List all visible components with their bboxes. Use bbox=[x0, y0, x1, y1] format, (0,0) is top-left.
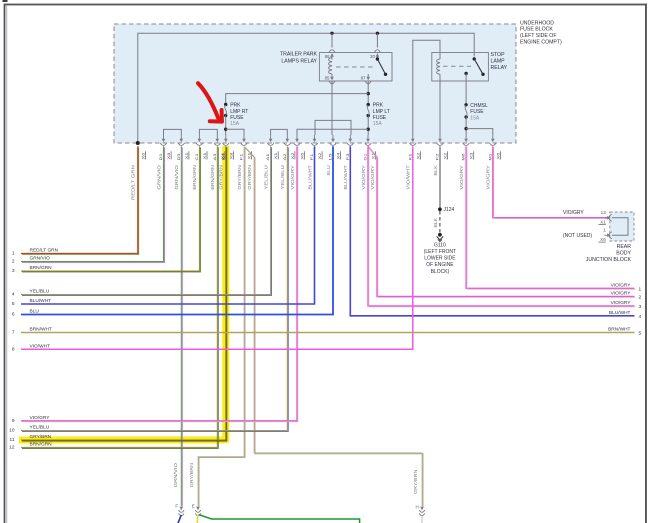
svg-text:15A: 15A bbox=[230, 121, 240, 127]
wire 87-to-RT-fuse bbox=[226, 94, 369, 105]
svg-text:X8: X8 bbox=[167, 153, 171, 160]
svg-text:GRY/BRN: GRY/BRN bbox=[247, 165, 252, 189]
svg-text:UNDERHOOD: UNDERHOOD bbox=[520, 20, 554, 26]
wire BRN/GRN from A3 bbox=[21, 146, 218, 448]
node bus-86 bbox=[330, 32, 333, 35]
wire BLK to ground bbox=[433, 211, 440, 233]
svg-text:BRN/GRN: BRN/GRN bbox=[30, 265, 53, 271]
svg-text:G1: G1 bbox=[364, 154, 368, 161]
svg-text:VIO/GRY: VIO/GRY bbox=[30, 415, 51, 421]
svg-text:ENGINE COMPT): ENGINE COMPT) bbox=[520, 39, 562, 45]
rear body junction block box bbox=[610, 212, 634, 241]
svg-text:M6: M6 bbox=[462, 154, 466, 161]
pin 86 trailer relay bbox=[325, 50, 335, 60]
svg-text:YEL/BLU: YEL/BLU bbox=[263, 165, 268, 189]
wire relay87 junction bbox=[367, 81, 370, 105]
fuse PRK LMP LT label bbox=[373, 103, 390, 128]
svg-text:5: 5 bbox=[639, 331, 642, 337]
coil trailer relay bbox=[329, 58, 332, 75]
svg-text:J124: J124 bbox=[444, 207, 455, 213]
svg-text:YEL/BLU: YEL/BLU bbox=[30, 425, 50, 431]
svg-text:YEL/BLU: YEL/BLU bbox=[280, 165, 285, 189]
page top border bbox=[3, 0, 648, 5]
connector pin pin K1 at x=412.8 bbox=[408, 135, 420, 161]
svg-text:X6: X6 bbox=[600, 237, 606, 242]
wire VIO/GRY from G1 bbox=[361, 146, 636, 307]
svg-text:(LEFT FRONT: (LEFT FRONT bbox=[424, 249, 456, 255]
left edge circuit labels bbox=[9, 248, 58, 451]
svg-text:FUSE: FUSE bbox=[470, 109, 484, 115]
underhood fuse block (dashed box) bbox=[114, 24, 516, 143]
wire RT fuse output bbox=[224, 116, 227, 136]
ground G110 label bbox=[424, 242, 457, 274]
fuse PRK LMP LT 15A bbox=[367, 103, 370, 117]
svg-text:X2: X2 bbox=[444, 153, 448, 160]
wire VIO/GRY left bbox=[21, 146, 298, 421]
svg-text:15A: 15A bbox=[470, 115, 480, 121]
svg-text:9: 9 bbox=[12, 418, 15, 424]
wire CHMSL branch to M1 bbox=[466, 129, 493, 135]
svg-text:JUNCTION BLOCK: JUNCTION BLOCK bbox=[586, 257, 632, 263]
bracket D1-D3 bbox=[164, 129, 182, 135]
svg-text:BRN/GRN: BRN/GRN bbox=[30, 442, 53, 448]
svg-text:X1: X1 bbox=[274, 153, 278, 160]
svg-text:GRY/BRN: GRY/BRN bbox=[237, 165, 242, 189]
connector pin pin F1 at x=244.0 bbox=[240, 135, 252, 161]
connector pin pin D3 at x=181.3 bbox=[177, 135, 189, 161]
linkage trailer relay bbox=[336, 66, 374, 68]
svg-text:X6: X6 bbox=[141, 153, 145, 160]
svg-text:BRN/WHT: BRN/WHT bbox=[30, 327, 52, 333]
connector pin pin C1 at x=199.4 bbox=[195, 135, 207, 161]
svg-text:X2: X2 bbox=[416, 153, 420, 160]
svg-text:VIO/GRY: VIO/GRY bbox=[370, 165, 375, 190]
connector pin pin F2 at x=440.0 bbox=[436, 135, 448, 161]
connector pin pin X6 at x=137.8 bbox=[136, 141, 146, 160]
svg-text:85: 85 bbox=[325, 75, 330, 80]
svg-text:2: 2 bbox=[639, 295, 642, 301]
svg-text:FUSE: FUSE bbox=[230, 115, 244, 121]
wire stop coil feed bbox=[413, 40, 440, 135]
fuse PRK LMP RT label bbox=[230, 103, 248, 128]
wire BLU/WHT from F3 bbox=[343, 146, 634, 315]
svg-text:BLK: BLK bbox=[433, 218, 438, 228]
svg-text:X8: X8 bbox=[229, 153, 233, 160]
svg-text:LOWER SIDE: LOWER SIDE bbox=[424, 256, 456, 262]
svg-text:10: 10 bbox=[9, 428, 15, 434]
svg-text:TRAILER PARK: TRAILER PARK bbox=[280, 52, 318, 58]
svg-text:1: 1 bbox=[603, 228, 606, 233]
node stop relay output bbox=[464, 72, 467, 75]
svg-text:FUSE BLOCK: FUSE BLOCK bbox=[520, 27, 553, 33]
svg-text:A3: A3 bbox=[213, 154, 217, 161]
svg-text:1: 1 bbox=[12, 251, 15, 257]
bracket A1-A2 bbox=[271, 129, 288, 135]
node bus-30 bbox=[376, 32, 379, 35]
connector E bbox=[192, 504, 201, 516]
connector pin pin K4 at x=225.8 bbox=[221, 135, 233, 161]
fuse CHMSL label bbox=[470, 103, 488, 121]
svg-text:X1: X1 bbox=[185, 153, 189, 160]
wire BLU below F bbox=[178, 515, 181, 523]
page left border bbox=[4, 4, 8, 523]
svg-text:VIO/GRY: VIO/GRY bbox=[611, 300, 632, 306]
svg-text:STOP: STOP bbox=[491, 52, 506, 58]
wire RED/LT GRN from X6 bbox=[21, 146, 139, 254]
svg-text:(NOT USED): (NOT USED) bbox=[563, 233, 592, 239]
svg-text:LAMPS RELAY: LAMPS RELAY bbox=[281, 59, 317, 65]
svg-text:BLU: BLU bbox=[30, 309, 40, 315]
svg-text:GRY/BRN: GRY/BRN bbox=[219, 165, 224, 189]
highlighted circuit (yellow) bbox=[19, 146, 226, 440]
svg-text:F1: F1 bbox=[310, 154, 314, 161]
svg-text:X1: X1 bbox=[203, 153, 207, 160]
svg-text:LMP LT: LMP LT bbox=[373, 109, 390, 115]
wire BLU from L5 bbox=[21, 146, 333, 314]
svg-text:LMP RT: LMP RT bbox=[230, 109, 248, 115]
svg-text:BRN/GRN: BRN/GRN bbox=[192, 165, 197, 189]
svg-text:LAMP: LAMP bbox=[491, 59, 506, 65]
svg-text:VIO/GRY: VIO/GRY bbox=[459, 165, 464, 190]
connector pin pin D1 at x=163.5 bbox=[159, 135, 171, 161]
connector pin pin X6 at x=297.0 bbox=[294, 135, 305, 160]
svg-text:12: 12 bbox=[9, 445, 15, 451]
wire GRY/BRN from K4 (highlighted) bbox=[21, 146, 227, 441]
svg-text:2: 2 bbox=[12, 259, 15, 265]
connector pin pin F1 at x=314.5 bbox=[310, 135, 322, 161]
wire relay85 output bbox=[331, 81, 333, 120]
svg-text:FUSE: FUSE bbox=[373, 115, 387, 121]
relay stop box bbox=[432, 53, 489, 82]
connector pin pin M1 at x=492.8 bbox=[488, 135, 500, 161]
splice J124 bbox=[438, 207, 455, 213]
connector F bbox=[175, 504, 184, 516]
svg-text:BODY: BODY bbox=[616, 251, 631, 257]
svg-text:C1: C1 bbox=[195, 154, 199, 161]
svg-text:4: 4 bbox=[12, 292, 15, 298]
wire bus to relay pin 30 bbox=[376, 33, 378, 47]
svg-text:F1: F1 bbox=[240, 154, 244, 161]
wire BRN/WHT through bbox=[21, 332, 635, 334]
svg-text:13: 13 bbox=[601, 210, 607, 215]
connector pin pin A1 at x=270.6 bbox=[266, 135, 278, 161]
svg-text:H: H bbox=[416, 505, 419, 510]
svg-text:YEL/BLU: YEL/BLU bbox=[30, 289, 50, 295]
linkage stop relay bbox=[443, 65, 471, 67]
svg-text:PRK: PRK bbox=[373, 103, 384, 109]
switch stop relay bbox=[473, 57, 485, 76]
svg-text:G110: G110 bbox=[434, 242, 446, 248]
wire main feed bus bbox=[138, 33, 474, 143]
junction block pin 1/X6 bbox=[598, 228, 611, 242]
svg-text:8: 8 bbox=[12, 347, 15, 353]
svg-text:X1: X1 bbox=[600, 220, 606, 225]
wire BLK from F2 bbox=[433, 146, 440, 209]
wire BRN/GRN from C1 bbox=[21, 146, 200, 272]
label VIO/GRY to junction block bbox=[563, 210, 584, 216]
svg-text:BLU/WHT: BLU/WHT bbox=[343, 165, 348, 190]
svg-text:4: 4 bbox=[639, 314, 642, 320]
wire VIO/WHT from K1 bbox=[21, 146, 413, 349]
wire GRY/BRN branch diagonal bbox=[244, 146, 423, 506]
svg-text:BLU/WHT: BLU/WHT bbox=[30, 298, 52, 304]
svg-text:M1: M1 bbox=[488, 154, 492, 161]
wire LT fuse bus bbox=[297, 129, 368, 135]
rear body junction block label bbox=[586, 244, 632, 263]
svg-text:15A: 15A bbox=[373, 121, 383, 127]
svg-text:RELAY: RELAY bbox=[491, 65, 508, 71]
svg-text:11: 11 bbox=[10, 437, 15, 443]
svg-text:VIO/GRY: VIO/GRY bbox=[361, 165, 366, 190]
svg-text:X6: X6 bbox=[496, 153, 500, 160]
pin 85 trailer relay bbox=[325, 74, 335, 84]
svg-text:F2: F2 bbox=[436, 154, 440, 161]
svg-text:VIO/GRY: VIO/GRY bbox=[290, 165, 295, 190]
svg-text:D1: D1 bbox=[159, 154, 163, 161]
svg-text:VIO/GRY: VIO/GRY bbox=[486, 165, 491, 190]
wire VIO/GRY from M6 bbox=[459, 146, 636, 289]
underhood fuse block label bbox=[520, 20, 562, 45]
wire VIO/GRY from M1 bbox=[486, 146, 609, 218]
svg-text:VIO/GRY: VIO/GRY bbox=[563, 210, 584, 216]
svg-text:GRY/BRN: GRY/BRN bbox=[30, 434, 52, 440]
svg-text:3: 3 bbox=[639, 304, 642, 310]
svg-text:1: 1 bbox=[639, 287, 642, 293]
svg-text:GRN/VIO: GRN/VIO bbox=[30, 256, 51, 262]
connector pin pin F3 at x=350.3 bbox=[346, 135, 354, 161]
svg-text:X6: X6 bbox=[301, 153, 305, 160]
wire GRY/BRN from F1 bbox=[189, 146, 245, 506]
svg-text:BLU/WHT: BLU/WHT bbox=[609, 310, 631, 316]
svg-text:87: 87 bbox=[361, 75, 366, 80]
svg-text:BLOCK): BLOCK) bbox=[431, 269, 450, 275]
wire stub below H bbox=[421, 516, 423, 523]
svg-text:RED/LT GRN: RED/LT GRN bbox=[131, 165, 136, 200]
red annotation arrow bbox=[198, 83, 222, 121]
wire BLU/WHT from F1b bbox=[21, 146, 315, 304]
svg-text:GRN/VIO: GRN/VIO bbox=[174, 164, 179, 189]
svg-text:D3: D3 bbox=[177, 154, 181, 161]
svg-text:VIO/WHT: VIO/WHT bbox=[406, 165, 411, 190]
wire VIO/GRY G1 diagonal bbox=[368, 146, 635, 297]
wire YEL/BLU from A1 bbox=[21, 146, 272, 295]
svg-text:BLU/WHT: BLU/WHT bbox=[307, 165, 312, 190]
page right border bbox=[645, 4, 647, 523]
connector H bbox=[416, 505, 425, 516]
wire RT fuse branch to F1 bbox=[226, 129, 244, 135]
svg-text:L5: L5 bbox=[329, 154, 333, 161]
svg-text:GRN/VIO: GRN/VIO bbox=[156, 164, 161, 189]
fuse CHMSL 15A bbox=[464, 74, 467, 119]
svg-text:REAR: REAR bbox=[617, 244, 632, 250]
svg-text:K4: K4 bbox=[221, 154, 225, 161]
wire LT fuse output bbox=[367, 116, 370, 135]
connector pin pin G1 at x=368.0 bbox=[364, 135, 376, 161]
svg-text:GRY/BRN: GRY/BRN bbox=[189, 463, 194, 487]
wire YEL/BLU from A2 bbox=[21, 146, 288, 431]
wire GRN/VIO from D1 bbox=[21, 146, 164, 262]
pin 30 trailer relay bbox=[370, 50, 380, 60]
svg-text:GRY/BRN: GRY/BRN bbox=[413, 470, 418, 494]
svg-text:30: 30 bbox=[370, 54, 375, 59]
connector pin pin A2 at x=287.3 bbox=[283, 135, 295, 161]
svg-text:X3: X3 bbox=[470, 153, 474, 160]
wire CHMSL output bbox=[464, 117, 467, 135]
wire bus to relay pin 86 bbox=[331, 33, 333, 47]
svg-text:5: 5 bbox=[12, 301, 15, 307]
svg-text:F: F bbox=[175, 504, 178, 509]
ground G110 bbox=[437, 233, 444, 242]
wire stop coil to ground pin bbox=[439, 81, 441, 135]
svg-text:A2: A2 bbox=[283, 154, 287, 161]
svg-text:X2: X2 bbox=[318, 153, 322, 160]
svg-text:X4: X4 bbox=[337, 153, 341, 160]
fuse PRK LMP RT 15A bbox=[224, 103, 227, 117]
svg-text:PRK: PRK bbox=[230, 103, 241, 109]
svg-text:OF ENGINE: OF ENGINE bbox=[426, 262, 454, 268]
svg-text:VIO/WHT: VIO/WHT bbox=[30, 344, 51, 350]
svg-text:CHMSL: CHMSL bbox=[470, 103, 488, 109]
svg-text:X2: X2 bbox=[291, 153, 295, 160]
svg-text:(LEFT SIDE OF: (LEFT SIDE OF bbox=[520, 33, 557, 39]
relay stop label bbox=[491, 52, 508, 71]
connector pin pin L5 at x=333.0 bbox=[329, 135, 341, 161]
svg-text:BLK: BLK bbox=[433, 165, 438, 176]
svg-text:F3: F3 bbox=[346, 154, 350, 161]
svg-text:3: 3 bbox=[12, 268, 15, 274]
wire GRN/VIO from D3 bbox=[173, 146, 182, 506]
svg-text:7: 7 bbox=[12, 330, 15, 336]
switch trailer relay bbox=[376, 57, 388, 76]
coil stop relay bbox=[437, 53, 440, 82]
label (NOT USED) bbox=[563, 233, 592, 239]
wire YEL below E bbox=[196, 515, 199, 523]
svg-text:BRN/WHT: BRN/WHT bbox=[608, 327, 630, 333]
svg-text:E: E bbox=[192, 504, 195, 509]
svg-text:BLU: BLU bbox=[326, 165, 331, 175]
connector pin pin M6 at x=466.1 bbox=[462, 135, 474, 161]
bracket C1-A3 bbox=[199, 129, 217, 135]
svg-text:6: 6 bbox=[12, 312, 15, 318]
relay K-trailer box bbox=[319, 53, 392, 82]
svg-text:A1: A1 bbox=[266, 154, 270, 161]
right edge circuit labels bbox=[608, 283, 641, 337]
svg-text:VIO/GRY: VIO/GRY bbox=[611, 283, 632, 289]
svg-text:VIO/GRY: VIO/GRY bbox=[611, 291, 632, 297]
pin 87 trailer relay bbox=[361, 74, 372, 84]
wire GRN below E bbox=[199, 515, 360, 523]
svg-text:RED/LT GRN: RED/LT GRN bbox=[30, 248, 59, 254]
svg-text:GRN/VIO: GRN/VIO bbox=[173, 462, 178, 487]
junction block pin 13/X1 bbox=[598, 210, 611, 224]
svg-text:BRN/GRN: BRN/GRN bbox=[210, 165, 215, 189]
svg-text:K1: K1 bbox=[408, 154, 412, 161]
relay K-trailer label bbox=[280, 52, 318, 65]
connector pin pin A3 at x=217.3 bbox=[213, 135, 225, 161]
bracket 85 outputs bbox=[315, 120, 351, 135]
